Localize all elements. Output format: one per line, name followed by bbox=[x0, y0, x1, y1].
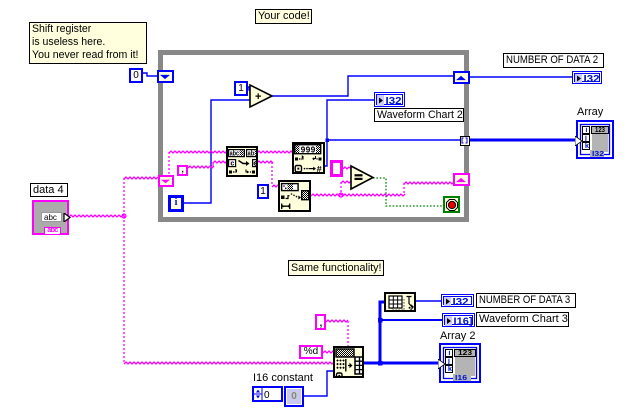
svg-text:I32: I32 bbox=[584, 74, 600, 83]
svg-text:c: c bbox=[230, 161, 234, 168]
svg-text:I32: I32 bbox=[453, 297, 469, 306]
svg-text:I32: I32 bbox=[592, 149, 604, 157]
svg-text:I16: I16 bbox=[455, 373, 467, 381]
svg-text:I32: I32 bbox=[386, 96, 402, 106]
svg-text:#: # bbox=[317, 165, 323, 172]
svg-text:abc: abc bbox=[230, 151, 240, 158]
svg-text:123: 123 bbox=[458, 350, 472, 357]
svg-text:ab: ab bbox=[248, 151, 255, 158]
svg-text:999: 999 bbox=[301, 146, 316, 156]
svg-text:123: 123 bbox=[595, 127, 605, 134]
svg-text:+: + bbox=[255, 91, 261, 103]
svg-text:I16]: I16] bbox=[454, 317, 473, 327]
svg-text:0: 0 bbox=[264, 390, 270, 400]
